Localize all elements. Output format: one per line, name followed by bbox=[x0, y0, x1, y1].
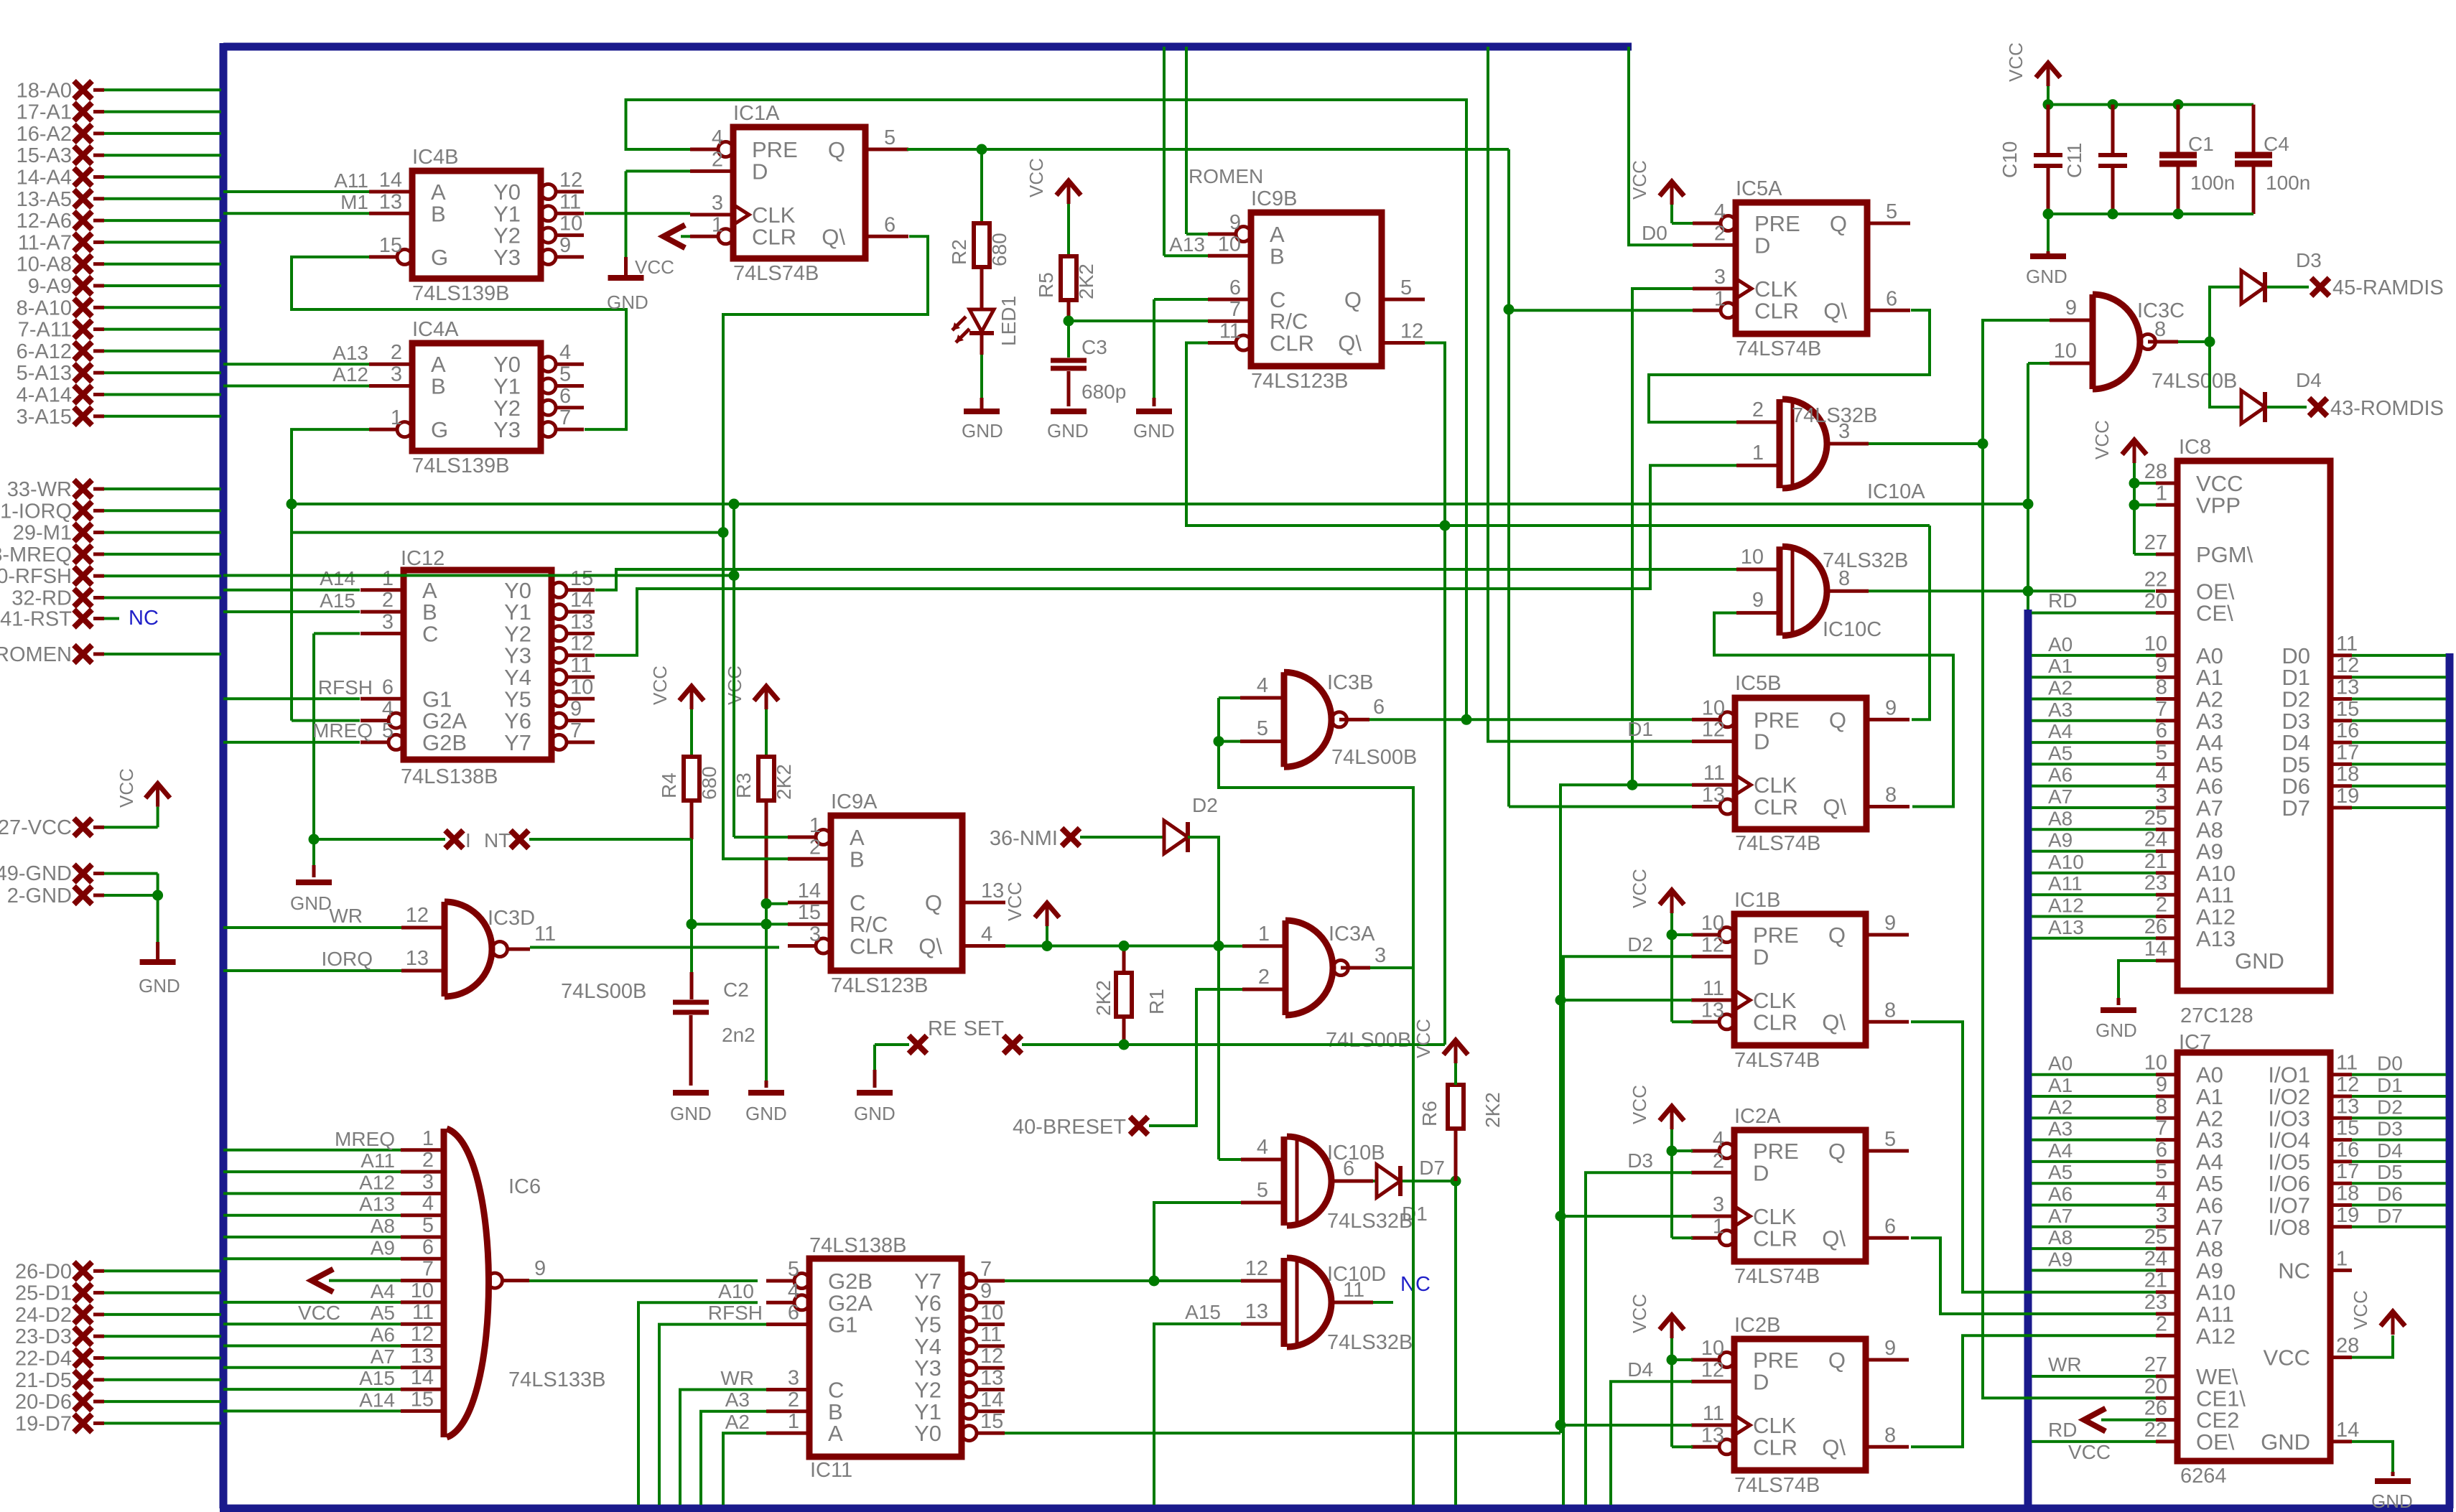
svg-text:14-A4: 14-A4 bbox=[17, 167, 72, 190]
wire IC3A.out down bbox=[1412, 968, 1415, 1505]
IC10C pin 8 output bbox=[1824, 567, 1869, 591]
junction (netP/PRE drop) bbox=[1461, 714, 1472, 725]
IC8 pin 9 A1 bbox=[2032, 654, 2223, 690]
svg-text:IC3A: IC3A bbox=[1329, 923, 1375, 946]
IC3C pin 8 output bbox=[2148, 318, 2178, 342]
svg-text:2: 2 bbox=[2156, 1312, 2167, 1335]
wire IC10A.out bbox=[1869, 442, 1983, 445]
svg-text:4: 4 bbox=[712, 126, 723, 149]
resistor R6 2K2 bbox=[1418, 1085, 1504, 1129]
IC9B pin 12 Q\ bbox=[1338, 320, 1425, 356]
IC7 pin 18 I/O7 bbox=[2268, 1182, 2446, 1218]
svg-text:5: 5 bbox=[559, 363, 571, 386]
junction rail C11 bbox=[2108, 99, 2118, 110]
svg-text:IC10A: IC10A bbox=[1867, 480, 1925, 503]
svg-text:12: 12 bbox=[411, 1323, 434, 1346]
IC9A pin 14 C bbox=[788, 879, 865, 915]
IC8 pin 20 CE\ bbox=[2144, 590, 2233, 626]
connector pin 44-ROMEN bbox=[0, 643, 221, 666]
svg-text:74LS138B: 74LS138B bbox=[401, 765, 498, 788]
svg-text:GND: GND bbox=[2026, 266, 2067, 287]
svg-text:13: 13 bbox=[1245, 1300, 1268, 1323]
svg-text:27C128: 27C128 bbox=[2180, 1004, 2253, 1027]
svg-text:16: 16 bbox=[2336, 719, 2359, 742]
svg-text:9: 9 bbox=[1884, 912, 1896, 935]
svg-text:29-M1: 29-M1 bbox=[13, 522, 72, 545]
IC8 pin 13 D2 bbox=[2281, 676, 2446, 712]
IC3B pin 5 input bbox=[1240, 717, 1284, 742]
wire to IC10B.5 bbox=[1154, 1203, 1241, 1281]
wire IC9A.Q4 to IC3A.1 bbox=[1005, 945, 1219, 948]
X mark INT right bbox=[511, 831, 529, 849]
svg-text:A9: A9 bbox=[371, 1236, 395, 1259]
svg-text:RE: RE bbox=[928, 1017, 957, 1040]
svg-text:NC: NC bbox=[1400, 1273, 1431, 1296]
wire D7 to bottom bus bbox=[1454, 1181, 1457, 1505]
connector pin 49-GND bbox=[0, 862, 158, 895]
svg-text:D5: D5 bbox=[2377, 1161, 2403, 1183]
capacitor C11 bbox=[2063, 105, 2127, 214]
svg-text:D0: D0 bbox=[1642, 222, 1667, 244]
svg-text:12: 12 bbox=[1400, 320, 1423, 343]
junction (IC2A PRE) bbox=[1667, 1146, 1678, 1157]
capacitor C1 100n bbox=[2159, 105, 2235, 214]
svg-text:IC11: IC11 bbox=[810, 1459, 852, 1482]
svg-text:IC6: IC6 bbox=[508, 1175, 541, 1198]
IC2A pin 6 Q\ bbox=[1822, 1215, 1909, 1251]
wire IC10A.out up to IC3C.9 bbox=[1983, 320, 2050, 444]
junction (INT/GND/C) bbox=[309, 834, 320, 845]
svg-text:MREQ: MREQ bbox=[312, 719, 373, 742]
svg-text:CLR: CLR bbox=[1270, 331, 1314, 356]
IC8 pin 26 A13 bbox=[2032, 915, 2236, 951]
connector pin 9-A9 bbox=[28, 275, 221, 298]
IC12 pin 11 Y4 bbox=[504, 654, 595, 690]
svg-text:74LS32B: 74LS32B bbox=[1792, 404, 1877, 427]
IC3B pin 4 input bbox=[1240, 674, 1284, 698]
svg-text:VCC: VCC bbox=[2091, 420, 2113, 459]
ground GND (INT) bbox=[290, 839, 332, 914]
svg-text:14: 14 bbox=[2336, 1419, 2359, 1442]
wire IC4A.G down bbox=[292, 429, 369, 721]
junction (IC1B CLK) bbox=[1555, 995, 1566, 1006]
wire A12 to IC4A.B bbox=[223, 363, 369, 386]
IC IC4B 74LS139B box bbox=[412, 146, 541, 305]
IC7 pin 28 VCC bbox=[2264, 1335, 2360, 1371]
wire IC1A.Q bbox=[907, 148, 1509, 151]
svg-text:GND: GND bbox=[854, 1103, 896, 1124]
svg-text:7: 7 bbox=[2156, 1117, 2167, 1140]
junction (IC8 VCC) bbox=[2129, 478, 2140, 489]
wire RFSH to IC12.G1 bbox=[223, 676, 373, 699]
svg-text:Q\: Q\ bbox=[1823, 298, 1847, 323]
gate IC3D 74LS00B bbox=[445, 902, 646, 1003]
IC4B pin 13 B bbox=[369, 190, 446, 226]
IC10A pin 1 input bbox=[1736, 442, 1780, 465]
svg-text:R4: R4 bbox=[658, 773, 680, 798]
connector pin 19-D7 bbox=[15, 1412, 221, 1435]
svg-text:74LS123B: 74LS123B bbox=[1251, 370, 1348, 393]
IC1B pin 9 Q bbox=[1828, 912, 1909, 948]
svg-text:IC5B: IC5B bbox=[1735, 672, 1781, 695]
VCC arrow (R3) bbox=[724, 666, 778, 709]
IC5B pin 10 PRE bbox=[1692, 696, 1800, 732]
svg-text:GND: GND bbox=[607, 291, 648, 313]
IC8 pin 17 D5 bbox=[2281, 741, 2446, 777]
IC8 pin 8 A2 bbox=[2032, 676, 2223, 712]
svg-text:15: 15 bbox=[379, 234, 402, 257]
IC8 pin 16 D4 bbox=[2281, 719, 2446, 755]
svg-text:RFSH: RFSH bbox=[318, 676, 373, 699]
wire cap top rail bbox=[2048, 103, 2253, 106]
connector pin 32-RD bbox=[11, 587, 221, 610]
svg-text:A5: A5 bbox=[371, 1302, 395, 1324]
svg-text:4: 4 bbox=[422, 1193, 434, 1215]
svg-text:D2: D2 bbox=[2377, 1096, 2403, 1118]
svg-text:2K2: 2K2 bbox=[1092, 980, 1115, 1016]
net label INT bbox=[465, 829, 511, 851]
IC9A pin 3 CLR bbox=[788, 923, 894, 959]
wire to IC5B.CLR bbox=[1509, 806, 1693, 808]
wire IC3C.10 bbox=[2028, 362, 2050, 365]
svg-text:3: 3 bbox=[2156, 1204, 2167, 1227]
wire VCC to R4 bbox=[690, 709, 693, 757]
IC7 pin 12 I/O2 bbox=[2268, 1073, 2446, 1109]
wire R1 bottom bbox=[1122, 1017, 1126, 1045]
VCC arrow (IC8) bbox=[2091, 420, 2146, 463]
IC1A pin 4 PRE bbox=[690, 126, 798, 162]
IC9B pin 9 A bbox=[1208, 211, 1285, 247]
junction (R1/RESET) bbox=[1119, 1040, 1130, 1050]
wire IC1A.PRE route bbox=[626, 100, 1467, 719]
svg-text:Y0: Y0 bbox=[914, 1421, 941, 1446]
svg-text:5: 5 bbox=[382, 719, 394, 742]
IC IC11 74LS138B box bbox=[809, 1234, 962, 1482]
IC10B pin 6 output bbox=[1329, 1157, 1373, 1181]
wire to D3 bbox=[2210, 287, 2241, 342]
svg-text:D7: D7 bbox=[2377, 1205, 2403, 1227]
svg-text:22: 22 bbox=[2144, 568, 2167, 591]
IC IC5A 74LS74B box bbox=[1736, 177, 1867, 360]
svg-text:7: 7 bbox=[422, 1258, 434, 1281]
svg-text:11: 11 bbox=[1703, 762, 1725, 785]
IC2B pin 12 D bbox=[1691, 1358, 1769, 1394]
svg-text:3: 3 bbox=[1713, 1193, 1724, 1216]
svg-text:8-A10: 8-A10 bbox=[17, 297, 72, 319]
svg-text:GND: GND bbox=[962, 420, 1003, 442]
connector pin 6-A12 bbox=[17, 340, 221, 363]
IC7 pin 6 A4 bbox=[2032, 1139, 2223, 1175]
svg-text:6: 6 bbox=[788, 1302, 799, 1325]
svg-text:12: 12 bbox=[406, 904, 429, 927]
svg-text:WR: WR bbox=[720, 1367, 754, 1389]
junction (Q/R2) bbox=[977, 144, 987, 155]
IC7 pin 13 I/O3 bbox=[2268, 1095, 2446, 1131]
wire M1 to IC4B.B bbox=[223, 191, 369, 213]
resistor R4 680 bbox=[658, 757, 720, 801]
svg-text:D4: D4 bbox=[1627, 1358, 1653, 1381]
wire A2 to IC11.A bbox=[723, 1411, 766, 1505]
svg-text:5: 5 bbox=[2156, 741, 2167, 764]
svg-text:3: 3 bbox=[382, 610, 394, 633]
svg-text:74LS74B: 74LS74B bbox=[733, 262, 819, 285]
LED LED1 bbox=[952, 296, 1020, 346]
svg-text:C4: C4 bbox=[2264, 133, 2289, 155]
svg-text:24-D2: 24-D2 bbox=[15, 1304, 72, 1327]
svg-text:Q\: Q\ bbox=[1823, 795, 1846, 820]
wire IC12.Y3 chain bbox=[595, 465, 1736, 655]
wire VCC chain IC2A bbox=[1672, 1129, 1693, 1238]
svg-text:16: 16 bbox=[2336, 1139, 2359, 1162]
wire R3 down bbox=[765, 801, 768, 904]
wire to IC5A.CLR bbox=[1509, 309, 1693, 312]
IC7 pin 8 A2 bbox=[2032, 1095, 2223, 1131]
svg-text:WR: WR bbox=[2048, 1353, 2082, 1376]
IC IC4A 74LS139B box bbox=[412, 318, 541, 477]
junction (VCC/Q4) bbox=[1042, 941, 1053, 951]
svg-text:74LS00B: 74LS00B bbox=[1331, 746, 1417, 769]
svg-text:IC4B: IC4B bbox=[412, 146, 458, 169]
svg-text:6: 6 bbox=[1343, 1157, 1354, 1180]
junction (1022/RFSH801) bbox=[729, 570, 740, 581]
wire RFSH row bbox=[223, 574, 734, 577]
IC7 pin 15 I/O4 bbox=[2268, 1117, 2446, 1153]
svg-text:7: 7 bbox=[980, 1258, 992, 1281]
connector pin 28-MREQ bbox=[0, 543, 221, 566]
ground GND (IC1A D) with VCC label bbox=[607, 256, 674, 313]
svg-text:SET: SET bbox=[964, 1017, 1005, 1040]
svg-text:A0: A0 bbox=[2048, 1053, 2073, 1075]
IC12 pin 14 Y1 bbox=[504, 589, 595, 625]
svg-text:CE\: CE\ bbox=[2196, 601, 2233, 626]
svg-text:Q\: Q\ bbox=[1822, 1434, 1846, 1460]
svg-text:1: 1 bbox=[422, 1127, 434, 1150]
svg-text:9: 9 bbox=[2156, 654, 2167, 677]
svg-text:10: 10 bbox=[2054, 340, 2077, 363]
wire cap bottom rail bbox=[2048, 213, 2253, 215]
IC9A pin 2 B bbox=[788, 836, 865, 872]
wire Y0 chain vertical bbox=[1560, 785, 1692, 1433]
svg-text:6: 6 bbox=[2156, 719, 2167, 742]
no-connect label NC (41-RST) bbox=[129, 607, 159, 630]
svg-text:12: 12 bbox=[980, 1345, 1003, 1368]
VCC arrow (R4) bbox=[649, 666, 704, 709]
IC10B pin 4 input bbox=[1241, 1136, 1284, 1159]
wire ROMEN drop to IC9B.A bbox=[1186, 47, 1208, 234]
IC IC7 6264 box bbox=[2177, 1031, 2330, 1488]
svg-text:9: 9 bbox=[1885, 696, 1897, 719]
capacitor C3 680p bbox=[1051, 336, 1126, 403]
svg-text:Q\: Q\ bbox=[1338, 331, 1362, 356]
gate IC6 74LS133B body bbox=[444, 1129, 605, 1437]
svg-text:12: 12 bbox=[1245, 1257, 1268, 1280]
resistor R3 2K2 bbox=[732, 757, 795, 801]
IC8 pin 4 A6 bbox=[2032, 763, 2223, 799]
svg-text:G2B: G2B bbox=[422, 730, 467, 755]
svg-text:680: 680 bbox=[988, 233, 1010, 266]
connector pin 8-A10 bbox=[17, 297, 221, 319]
svg-text:74LS32B: 74LS32B bbox=[1327, 1331, 1413, 1354]
IC7 pin 17 I/O6 bbox=[2268, 1160, 2446, 1196]
svg-text:14: 14 bbox=[980, 1389, 1003, 1411]
resistor R1 2K2 bbox=[1092, 973, 1168, 1017]
junction (IC3B.5) bbox=[1214, 736, 1224, 747]
svg-text:74LS74B: 74LS74B bbox=[1736, 337, 1821, 360]
svg-text:R2: R2 bbox=[948, 239, 970, 265]
svg-text:13: 13 bbox=[411, 1345, 434, 1368]
junction brail C1 bbox=[2173, 209, 2184, 220]
svg-text:74LS138B: 74LS138B bbox=[809, 1234, 906, 1257]
svg-text:32-RD: 32-RD bbox=[11, 587, 72, 610]
svg-text:2K2: 2K2 bbox=[1075, 263, 1097, 299]
svg-text:VCC: VCC bbox=[1004, 882, 1025, 921]
svg-text:15: 15 bbox=[798, 901, 821, 924]
IC8 pin 28 VCC bbox=[2144, 460, 2243, 496]
svg-text:1: 1 bbox=[2156, 482, 2167, 505]
capacitor C4 100n bbox=[2235, 105, 2310, 214]
IC9B pin 10 B bbox=[1208, 233, 1285, 269]
connector pin 20-D6 bbox=[15, 1391, 221, 1414]
svg-text:1: 1 bbox=[2336, 1247, 2348, 1270]
svg-text:GND: GND bbox=[2095, 1019, 2137, 1041]
connector pin 14-A4 bbox=[17, 167, 221, 190]
IC3D pin 11 output bbox=[508, 923, 556, 949]
svg-text:2: 2 bbox=[382, 589, 394, 612]
IC4B pin 15 G bbox=[369, 234, 448, 270]
svg-text:A14: A14 bbox=[359, 1389, 395, 1411]
wire A15 to IC12.B bbox=[223, 589, 360, 612]
IC IC9B 74LS123B box bbox=[1251, 187, 1382, 393]
wire IC4B.Y1 to IC1A.CLK bbox=[585, 212, 690, 215]
svg-text:26: 26 bbox=[2144, 915, 2167, 938]
VCC arrow (cap bank) bbox=[2005, 42, 2060, 86]
svg-text:5: 5 bbox=[884, 126, 896, 149]
IC10C pin 9 input bbox=[1736, 589, 1780, 613]
svg-text:10: 10 bbox=[570, 676, 593, 699]
svg-text:26-D0: 26-D0 bbox=[15, 1260, 72, 1283]
svg-text:G: G bbox=[431, 245, 448, 270]
VCC arrow (R5) bbox=[1025, 158, 1081, 204]
svg-text:11: 11 bbox=[2336, 633, 2358, 655]
IC7 pin 14 GND bbox=[2261, 1419, 2359, 1455]
wire IC3D.11 to IC9A.CLR bbox=[530, 946, 779, 949]
svg-text:A13: A13 bbox=[2196, 926, 2236, 951]
svg-text:6264: 6264 bbox=[2180, 1465, 2227, 1488]
IC7 pin 19 I/O8 bbox=[2268, 1204, 2446, 1240]
wire to IC9A.C bbox=[766, 902, 788, 905]
svg-text:6: 6 bbox=[1373, 696, 1385, 719]
svg-text:12: 12 bbox=[1702, 719, 1725, 742]
svg-text:D: D bbox=[1754, 729, 1769, 755]
IC6 pin 10 (A4) bbox=[223, 1279, 444, 1302]
svg-text:3: 3 bbox=[809, 923, 821, 946]
junction (OE line) bbox=[2023, 586, 2034, 597]
IC5B pin 13 CLR bbox=[1692, 784, 1798, 820]
wire R2 to LED1 bbox=[980, 267, 984, 309]
svg-text:6: 6 bbox=[559, 385, 571, 408]
wire WR to IC3D.12 bbox=[223, 905, 401, 928]
junction (R3/RC15) bbox=[761, 919, 772, 930]
svg-text:13: 13 bbox=[2336, 1095, 2359, 1118]
svg-text:45-RAMDIS: 45-RAMDIS bbox=[2332, 276, 2444, 299]
wire D3 drop bbox=[1586, 1149, 1692, 1505]
wire junction to IC3A.1 bbox=[1219, 945, 1242, 948]
svg-text:9: 9 bbox=[2156, 1073, 2167, 1096]
svg-text:24: 24 bbox=[2144, 1247, 2167, 1270]
IC7 pin 27 WE\ bbox=[2032, 1353, 2238, 1389]
svg-text:D2: D2 bbox=[1192, 794, 1218, 816]
junction (M1/Q6vert) bbox=[718, 527, 729, 538]
IC IC8 27C128 box bbox=[2177, 436, 2330, 1027]
junction brail C11 bbox=[2108, 209, 2118, 220]
net label A13 (IC9B) bbox=[1169, 233, 1205, 256]
svg-text:1: 1 bbox=[391, 406, 402, 429]
IC2A pin 1 CLR bbox=[1691, 1215, 1797, 1251]
junction (Q/CLR) bbox=[1504, 304, 1515, 315]
svg-text:A3: A3 bbox=[2048, 699, 2073, 721]
gate IC10D 74LS32B bbox=[1284, 1258, 1413, 1354]
svg-text:15-A3: 15-A3 bbox=[17, 144, 72, 167]
svg-text:A13: A13 bbox=[359, 1193, 395, 1215]
IC8 pin 27 PGM\ bbox=[2144, 531, 2253, 567]
IC7 pin 9 A1 bbox=[2032, 1073, 2223, 1109]
IC11 pin 7 Y7 bbox=[914, 1258, 1005, 1294]
svg-text:20: 20 bbox=[2144, 590, 2167, 613]
svg-text:A14: A14 bbox=[320, 567, 355, 589]
diode D1 bbox=[1373, 1165, 1428, 1225]
svg-text:2: 2 bbox=[422, 1149, 434, 1172]
IC IC2B 74LS74B box bbox=[1734, 1314, 1866, 1497]
svg-text:A4: A4 bbox=[371, 1280, 395, 1302]
ground GND (RESET) bbox=[854, 1093, 896, 1124]
IC12 pin 2 B bbox=[361, 589, 437, 625]
junction (R3/C14) bbox=[761, 898, 772, 909]
svg-text:13-A5: 13-A5 bbox=[17, 188, 72, 211]
svg-text:CLR: CLR bbox=[1754, 795, 1798, 820]
svg-text:21: 21 bbox=[2144, 850, 2167, 873]
IC8 pin 10 A0 bbox=[2032, 633, 2223, 668]
IC2A pin 4 PRE bbox=[1691, 1128, 1799, 1164]
svg-text:11: 11 bbox=[559, 190, 581, 213]
VCC arrow (IC2B) bbox=[1629, 1294, 1684, 1338]
svg-text:C2: C2 bbox=[723, 979, 749, 1001]
IC4B pin 10 Y2 bbox=[493, 213, 584, 248]
svg-text:10: 10 bbox=[2144, 633, 2167, 655]
IC6 pin 9 output bbox=[503, 1257, 546, 1281]
svg-text:NT: NT bbox=[484, 829, 511, 851]
IC7 pin 2 A12 bbox=[2156, 1312, 2236, 1348]
connector pin 31-IORQ bbox=[0, 500, 221, 523]
svg-text:A4: A4 bbox=[2048, 720, 2073, 742]
junction (G-chain 702) bbox=[287, 499, 297, 510]
wire IC1B.Q8 to IC7.A10 bbox=[1911, 1022, 2156, 1292]
svg-text:VCC: VCC bbox=[1629, 1294, 1650, 1333]
IC6 pin 6 (A9) bbox=[223, 1236, 444, 1259]
svg-text:9: 9 bbox=[1884, 1337, 1896, 1360]
svg-text:VCC: VCC bbox=[2068, 1441, 2111, 1463]
svg-text:D3: D3 bbox=[2377, 1118, 2403, 1140]
junction (IC8 VPP) bbox=[2129, 500, 2140, 510]
resistor R5 2K2 bbox=[1035, 256, 1097, 300]
bus frame left rail bbox=[220, 43, 228, 1508]
svg-text:9: 9 bbox=[570, 698, 582, 721]
svg-text:5: 5 bbox=[422, 1214, 434, 1237]
svg-text:680: 680 bbox=[698, 766, 720, 800]
IC2A pin 3 CLK bbox=[1691, 1193, 1797, 1229]
svg-text:3: 3 bbox=[1374, 944, 1386, 967]
wire CLK to IC2A bbox=[1560, 1215, 1692, 1218]
wire CLK chain top bbox=[1632, 289, 1693, 785]
